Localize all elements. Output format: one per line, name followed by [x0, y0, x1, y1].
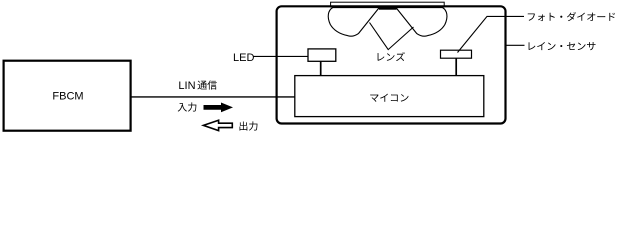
svg-text:LIN: LIN [178, 80, 195, 92]
svg-text:LED: LED [233, 52, 254, 64]
svg-text:FBCM: FBCM [52, 90, 83, 102]
